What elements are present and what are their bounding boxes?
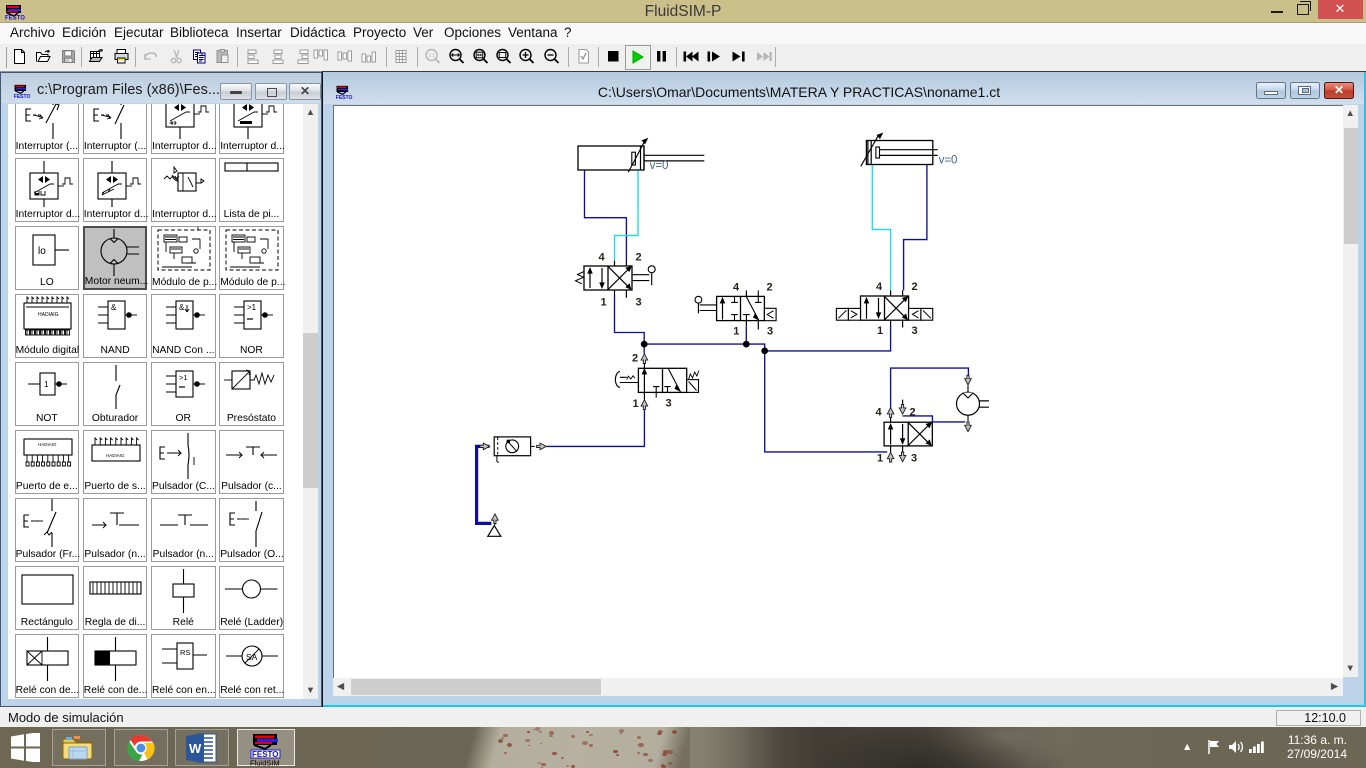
MDI: library window: [0, 72, 322, 707]
svg-text:1: 1: [632, 398, 638, 410]
air service unit (filter-regulator): [494, 437, 530, 463]
svg-text:HADIAIG: HADIAIG: [38, 442, 57, 447]
label v=0 of cylinder A2: [938, 155, 957, 167]
application title bar: [0, 0, 1366, 23]
svg-text:4: 4: [875, 407, 882, 419]
wire junction J3 to valve V3 port 1: [764, 326, 890, 351]
svg-text:1:1: 1:1: [428, 53, 435, 59]
toolbar: [0, 44, 1366, 73]
taskbar: [0, 727, 1366, 768]
svg-text:3: 3: [635, 297, 641, 309]
svg-text:FluidSIM: FluidSIM: [250, 758, 280, 766]
taskbar background photo approximation: [0, 727, 1366, 768]
svg-text:4: 4: [875, 281, 882, 293]
svg-text:W: W: [189, 741, 202, 756]
svg-text:>1: >1: [179, 373, 188, 382]
cylinder A2 (right, retracted): [860, 133, 937, 166]
wire junction J1 to valve V4 port 2: [643, 345, 645, 354]
wire bus junction J1 to junction J2: [644, 343, 746, 345]
wire junction J3 to valve V5 port 1: [764, 351, 887, 452]
svg-text:&: &: [111, 303, 117, 312]
start button (windows 8 logo): [11, 733, 41, 762]
valve V3 4/2-way with pneumatic pilots both sides: [836, 290, 932, 327]
junction J1: [640, 341, 647, 348]
connector arrow at valve V5 port 3: [899, 452, 906, 462]
svg-text:HADIAIG: HADIAIG: [38, 312, 59, 318]
compressed air supply source: [487, 514, 500, 536]
svg-text:4: 4: [598, 252, 605, 264]
svg-text:lo: lo: [38, 246, 46, 257]
svg-text:3: 3: [910, 453, 916, 465]
connector arrow out of service unit (right): [530, 443, 546, 450]
port labels of valve V5: [875, 407, 917, 465]
svg-text:v=0: v=0: [649, 160, 668, 172]
connector arrow into service unit (left): [478, 443, 489, 450]
svg-text:HADIAIG: HADIAIG: [106, 453, 125, 458]
svg-text:1: 1: [876, 325, 882, 337]
wire valve V2 port 1 to junction J2: [745, 326, 747, 344]
menu bar: [0, 23, 1366, 44]
svg-text:1: 1: [876, 453, 882, 465]
thick supply wire from compressed-air source to service unit: [476, 446, 491, 523]
label v=0 of cylinder A1: [649, 160, 668, 172]
svg-text:2: 2: [635, 252, 641, 264]
lib scrollbar: [303, 104, 318, 699]
port labels of valve V4: [631, 353, 671, 411]
main v scrollbar: [1343, 105, 1359, 677]
wire right-cylinder port A to valve V3 port 4 (cyan): [872, 165, 890, 290]
main h scrollbar: [333, 678, 1343, 696]
valve V5 4/2-way impulse valve: [884, 400, 932, 453]
wire left-cylinder port A to valve V1 port 2: [584, 170, 626, 261]
connector arrow at valve V4 port 2: [641, 354, 648, 364]
svg-text:RS: RS: [180, 648, 190, 657]
svg-text:2: 2: [911, 281, 917, 293]
wire valve V5 port 2 to air motor bottom: [902, 416, 965, 422]
wire junction J2 to junction J3: [746, 344, 764, 351]
port labels of valve V3: [875, 281, 917, 337]
svg-text:FESTO: FESTO: [14, 94, 31, 99]
svg-text:>1: >1: [247, 303, 257, 312]
port labels of valve V2: [732, 281, 772, 337]
valve V1 4/2-way with spring and push button: [575, 261, 655, 298]
connector arrow at air motor bottom: [964, 422, 971, 432]
air motor M1: [956, 386, 989, 422]
connector arrow at valve V5 port 4: [887, 408, 894, 418]
svg-text:3: 3: [766, 325, 772, 337]
svg-text:1: 1: [44, 380, 49, 389]
MDI: circuit window: [322, 71, 1366, 708]
svg-text:4: 4: [732, 281, 739, 293]
svg-text:2: 2: [631, 353, 637, 365]
wire left-cylinder port B to valve V1 port 4 (cyan): [614, 171, 638, 261]
port labels of valve V1: [598, 252, 641, 309]
wire valve V1 port 1 to junction J1: [614, 296, 644, 343]
junction J3: [761, 348, 768, 355]
svg-text:2: 2: [909, 407, 915, 419]
valve V2 4/2-way with push button and pilot return: [695, 291, 776, 330]
connector arrow at air motor top: [964, 375, 971, 385]
wire right-cylinder port B to valve V3 port 2: [903, 165, 926, 290]
wire valve V5 port 4 to air motor top: [890, 368, 968, 407]
svg-text:&: &: [179, 303, 185, 312]
wire air service unit to valve V4 port 1: [546, 409, 644, 447]
cylinder A1 (left, with adjustable cushioning): [578, 139, 704, 173]
connector arrow at valve V4 port 1: [641, 400, 648, 410]
connector arrow at valve V5 port 1: [887, 452, 894, 462]
junction J2: [742, 341, 749, 348]
svg-text:1: 1: [733, 325, 739, 337]
svg-text:1: 1: [600, 297, 606, 309]
svg-text:v=0: v=0: [938, 155, 957, 167]
svg-text:2: 2: [766, 281, 772, 293]
svg-text:3: 3: [911, 325, 917, 337]
status bar: [0, 707, 1366, 727]
connector arrow at valve V5 port 2: [899, 405, 906, 415]
svg-text:3: 3: [665, 398, 671, 410]
valve V4 3/2-way with mushroom button and spring return: [615, 362, 699, 399]
